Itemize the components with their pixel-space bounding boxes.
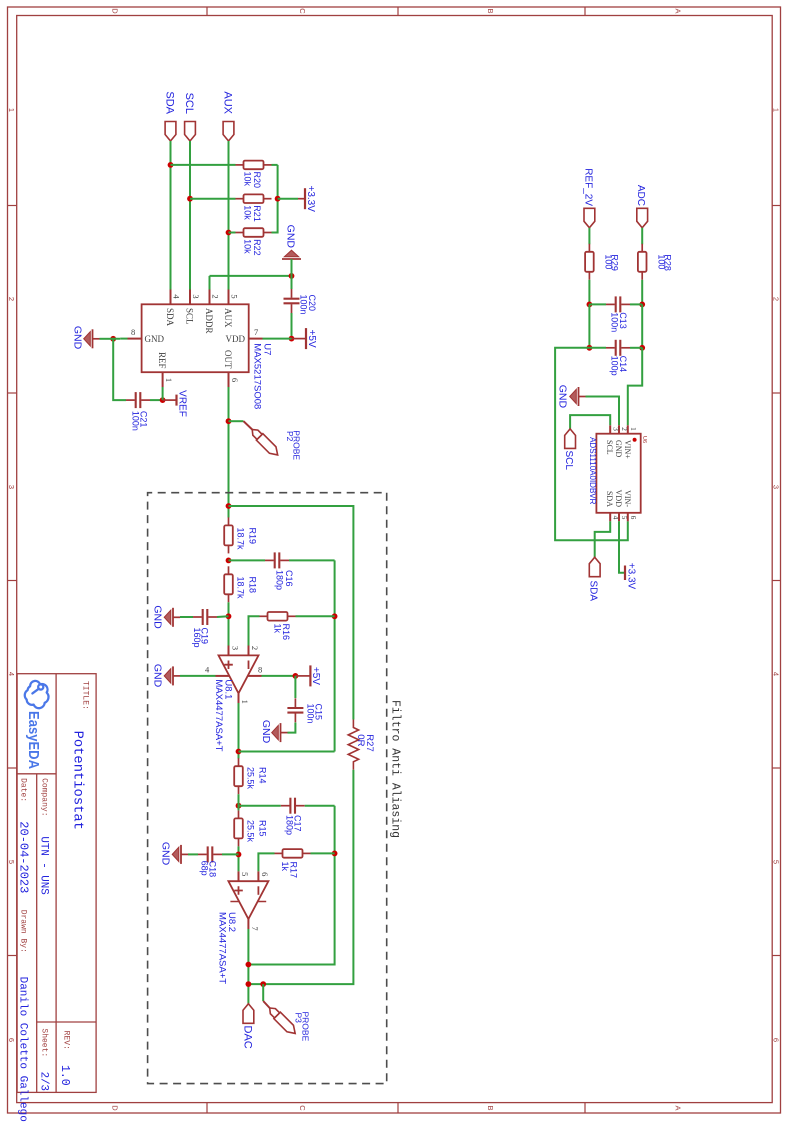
resistor R21: [264, 198, 272, 200]
EasyEDA logo: [25, 681, 49, 708]
wire feedback riser: [239, 751, 335, 753]
svg-text:SCL: SCL: [605, 440, 614, 455]
svg-text:1: 1: [772, 108, 781, 112]
pin stub U8.1 pin 4: [216, 675, 230, 677]
junction GND / pin8 / C21: [110, 336, 116, 342]
svg-text:SDA: SDA: [165, 308, 175, 327]
svg-text:R14: R14: [258, 767, 268, 784]
wire feedback to R16: [296, 615, 335, 617]
svg-text:100n: 100n: [299, 295, 309, 315]
junction P2 probe: [226, 418, 232, 424]
svg-text:1k: 1k: [280, 862, 290, 872]
pin stub U7 pin 8: [128, 338, 142, 340]
svg-text:4: 4: [772, 672, 781, 676]
svg-text:10k: 10k: [243, 205, 253, 220]
svg-text:D: D: [111, 8, 120, 14]
pin stub U8.1 pin 3: [228, 646, 230, 656]
svg-text:10k: 10k: [243, 172, 253, 187]
svg-text:UTN - UNS: UTN - UNS: [38, 836, 50, 894]
svg-text:6: 6: [260, 872, 270, 876]
svg-text:3: 3: [191, 294, 201, 298]
resistor R28: [641, 244, 643, 252]
svg-text:DAC: DAC: [242, 1026, 254, 1049]
junction node D: [236, 852, 242, 858]
junction ADDR / C20 / GND: [289, 273, 295, 279]
svg-text:AUX: AUX: [222, 91, 234, 114]
svg-text:Drawn By:: Drawn By:: [19, 910, 28, 953]
svg-text:GND: GND: [152, 605, 164, 629]
capacitor C18: [211, 846, 213, 862]
svg-text:2: 2: [772, 297, 781, 301]
wire SCL flag to U7 pin 3: [189, 141, 191, 290]
svg-text:4: 4: [7, 672, 16, 676]
svg-text:2: 2: [250, 646, 260, 650]
wire REF to VIN-: [555, 348, 628, 541]
svg-text:VREF: VREF: [177, 390, 188, 417]
svg-text:2: 2: [7, 297, 16, 301]
pin stub U7 pin 2: [209, 290, 211, 305]
capacitor C19: [206, 609, 208, 625]
pin stub U7 pin 1 REF: [162, 372, 164, 387]
svg-text:10k: 10k: [243, 239, 253, 254]
svg-text:VIN-: VIN-: [623, 490, 632, 507]
wire R17 to pin 6: [258, 853, 274, 871]
svg-text:SCL: SCL: [183, 93, 195, 114]
svg-text:2: 2: [620, 427, 629, 431]
wire R20 top: [272, 164, 278, 166]
svg-text:1: 1: [164, 378, 174, 382]
wire C13 upper lead: [630, 303, 642, 305]
wire feedback stage 1: [334, 560, 336, 751]
junction pullup rail / +3.3V: [275, 196, 281, 202]
wire node B to C19: [217, 615, 229, 618]
capacitor C16: [278, 552, 280, 568]
U6 pin 1 marker: [633, 438, 637, 442]
net flag SDA right: [589, 557, 600, 577]
wire pin 4 to gnd: [180, 675, 216, 677]
ground at C15: [272, 723, 288, 742]
resistor R15: [238, 810, 240, 818]
wire R27 branch left: [229, 506, 354, 720]
wire to P3 probe: [262, 984, 264, 1001]
wire junction to C15: [294, 676, 296, 698]
resistor R20: [264, 164, 272, 166]
title block grid: [17, 674, 96, 1093]
svg-text:C: C: [298, 1105, 307, 1111]
wire SDA to flag: [595, 521, 611, 557]
svg-text:+5V: +5V: [306, 330, 317, 348]
svg-text:+5V: +5V: [310, 667, 321, 685]
wire C13 to C14 top: [641, 304, 643, 347]
svg-text:GND: GND: [614, 440, 623, 458]
wire to +3.3V: [278, 198, 298, 200]
junction C14 top: [639, 345, 645, 351]
svg-text:OUT: OUT: [223, 350, 233, 369]
wire C19 to gnd: [180, 616, 193, 618]
ground at U7 pin 8: [84, 329, 100, 348]
power +5V at U8.1: [295, 675, 310, 677]
ground at C19: [164, 608, 180, 627]
pin stub U8.1 pin 2: [248, 646, 250, 656]
ground at C18: [172, 845, 188, 864]
svg-text:5: 5: [772, 860, 781, 864]
svg-text:Filtro Anti Aliasing: Filtro Anti Aliasing: [389, 700, 402, 838]
wire OUT main line: [228, 387, 230, 518]
svg-text:ADDR: ADDR: [204, 308, 214, 334]
wire gnd run to C21: [113, 339, 126, 400]
resistor R17: [303, 852, 311, 854]
pin stub ADS pin 1: [627, 425, 629, 433]
svg-text:GND: GND: [557, 385, 569, 409]
svg-text:SCL: SCL: [185, 308, 195, 325]
svg-text:25.5k: 25.5k: [246, 767, 256, 790]
svg-text:180p: 180p: [285, 815, 295, 835]
wire C17 to feedback 2: [305, 805, 335, 807]
capacitor C14: [619, 340, 621, 356]
svg-text:100n: 100n: [610, 312, 620, 332]
resistor R22: [264, 232, 272, 234]
pin stub U8.2 pin 5: [238, 871, 240, 881]
svg-text:3: 3: [611, 427, 620, 431]
capacitor C15: [287, 707, 303, 709]
pin stub U8.2 pin 7: [247, 919, 249, 929]
P3 probe lead: [263, 1001, 270, 1008]
wire AUX flag to U7 pin 5: [228, 141, 230, 290]
pin stub U7 pin 5: [228, 290, 230, 305]
svg-text:0R: 0R: [355, 734, 366, 746]
svg-text:TITLE:: TITLE:: [81, 681, 90, 710]
svg-text:5: 5: [620, 516, 629, 520]
junction C13 top: [639, 302, 645, 308]
svg-text:R15: R15: [258, 820, 268, 837]
svg-text:B: B: [486, 1105, 495, 1110]
wire C13 lower lead: [589, 303, 606, 305]
svg-text:ADS1110A0IDBVR: ADS1110A0IDBVR: [588, 437, 597, 505]
svg-text:REF_2V: REF_2V: [583, 168, 594, 206]
wire gnd to ADS pin 2: [586, 397, 620, 426]
wire C20 to +5V junction: [291, 313, 293, 339]
wire C16 to feedback: [289, 559, 335, 561]
wire to P2 probe: [229, 420, 244, 422]
wire R27 branch right: [248, 770, 353, 984]
svg-text:ADC: ADC: [635, 185, 646, 206]
svg-text:REV:: REV:: [62, 1031, 71, 1050]
svg-text:1: 1: [7, 108, 16, 112]
wire VDD to +3.3V: [619, 521, 625, 572]
svg-text:R22: R22: [252, 239, 262, 256]
svg-text:68p: 68p: [200, 861, 210, 876]
junction SCL / R21: [187, 196, 193, 202]
junction C13 bottom: [587, 302, 593, 308]
net flag SCL right: [565, 429, 576, 449]
svg-text:+3.3V: +3.3V: [305, 185, 316, 212]
net flag ADC: [637, 208, 648, 228]
junction REF / VREF / C21: [160, 397, 166, 403]
wire C16 to node A: [229, 559, 266, 561]
svg-text:7: 7: [250, 926, 260, 930]
svg-text:VIN+: VIN+: [623, 440, 632, 459]
pin stub U7 pin 6 OUT: [228, 372, 230, 387]
power +5V at U7: [292, 338, 307, 340]
net flag REF_2V: [584, 208, 595, 228]
svg-text:1.0: 1.0: [58, 1065, 71, 1086]
svg-text:MAX5217SO08: MAX5217SO08: [252, 343, 263, 409]
svg-text:Date:: Date:: [19, 778, 28, 802]
svg-text:SDA: SDA: [605, 491, 614, 507]
junction U8.1 output / feedback: [236, 749, 242, 755]
probe P3: [266, 1005, 298, 1037]
net flag SDA: [165, 122, 176, 142]
resistor R16: [288, 615, 296, 617]
junction R27 branch: [226, 503, 232, 509]
wire C15 to gnd: [288, 723, 296, 733]
wire R29 to C13: [588, 280, 590, 305]
svg-text:6: 6: [772, 1038, 781, 1042]
dashed box Filtro Anti Aliasing: [148, 493, 387, 1084]
U8.2 unconnected power stubs: [230, 901, 266, 903]
junction SDA / R20: [168, 162, 174, 168]
ADC IC U6 body: [596, 434, 640, 513]
svg-text:GND: GND: [145, 334, 165, 344]
wire C18 to gnd: [188, 853, 198, 855]
frame tick marks: [772, 205, 780, 207]
resistor R29: [588, 244, 590, 252]
pin stub ADS pin 3: [609, 425, 611, 433]
svg-text:2/3: 2/3: [38, 1072, 50, 1091]
capacitor C13: [619, 296, 621, 312]
svg-text:1: 1: [629, 427, 638, 431]
wire node D to pin 5: [238, 846, 240, 871]
junction P3 probe: [260, 981, 266, 987]
svg-text:Sheet:: Sheet:: [40, 1028, 49, 1057]
pin stub ADS pin 6: [627, 513, 629, 522]
power flag VREF: [163, 399, 177, 401]
wire R28 to C13: [641, 280, 643, 305]
wire U8.1 output: [238, 703, 240, 759]
svg-text:8: 8: [258, 664, 262, 674]
wire SDA flag to U7 pin 4: [170, 141, 172, 290]
svg-text:D: D: [111, 1105, 120, 1111]
svg-text:GND: GND: [72, 326, 84, 350]
svg-text:20-04-2023: 20-04-2023: [17, 821, 31, 893]
svg-text:R18: R18: [248, 577, 258, 594]
wire feedback 2 to R17: [311, 852, 335, 854]
wire GND to junction: [291, 259, 293, 276]
wire ADDR horizontal: [209, 276, 211, 290]
svg-text:Potentiostat: Potentiostat: [70, 731, 86, 830]
resistor R18: [228, 566, 230, 574]
junction output / R27 branch: [246, 981, 252, 987]
svg-text:U6: U6: [641, 436, 647, 443]
power +3.3V right: [624, 566, 626, 581]
svg-text:6: 6: [230, 378, 240, 382]
wire pullup rail: [272, 165, 278, 233]
P2 probe lead: [244, 421, 253, 429]
wire +5V junction to VDD pin: [263, 338, 292, 340]
svg-text:P2: P2: [285, 431, 295, 442]
svg-text:100p: 100p: [610, 356, 620, 376]
net flag AUX: [223, 122, 234, 142]
svg-text:5: 5: [240, 872, 250, 876]
wire pin 8 to +5V: [262, 675, 296, 677]
wire REF_2V flag: [588, 228, 590, 245]
junction R17 / feedback 2: [332, 851, 338, 857]
svg-text:6: 6: [629, 516, 638, 520]
svg-text:B: B: [486, 8, 495, 13]
svg-text:VDD: VDD: [614, 490, 623, 508]
svg-text:3: 3: [231, 646, 241, 650]
op-amp U8.1: [219, 655, 259, 693]
svg-text:1: 1: [240, 700, 250, 704]
svg-text:1k: 1k: [273, 624, 283, 634]
wire node C: [238, 794, 240, 810]
svg-text:3: 3: [772, 485, 781, 489]
svg-text:MAX4477ASA+T: MAX4477ASA+T: [217, 912, 228, 984]
svg-text:180p: 180p: [275, 570, 285, 590]
svg-text:EasyEDA: EasyEDA: [25, 711, 41, 769]
ground at U8.1 pin 4: [164, 666, 180, 685]
wire junction to C20: [291, 276, 293, 289]
svg-text:A: A: [674, 1105, 683, 1110]
pin stub U7 pin 4: [170, 290, 172, 305]
svg-text:25.5k: 25.5k: [246, 820, 256, 843]
resistor R14: [238, 758, 240, 766]
probe P2: [249, 426, 281, 458]
svg-text:VDD: VDD: [226, 334, 246, 344]
wire feedback stage 2: [248, 806, 334, 965]
pin stub ADS pin 2: [618, 425, 620, 433]
op-amp driver IC U7 body: [142, 304, 249, 372]
pin stub ADS pin 4: [609, 513, 611, 522]
resistor R27 zigzag: [348, 720, 358, 770]
svg-text:GND: GND: [160, 842, 172, 866]
net flag DAC: [243, 1004, 254, 1024]
svg-text:C: C: [298, 8, 307, 14]
svg-text:Danilo Coletto Gallego: Danilo Coletto Gallego: [17, 977, 29, 1122]
resistor R19: [228, 517, 230, 525]
junction C14 bottom: [587, 345, 593, 351]
svg-text:2: 2: [211, 294, 221, 298]
wire pin8 to junction: [120, 338, 127, 340]
op-amp U8.2: [228, 881, 268, 919]
capacitor C17: [294, 798, 296, 814]
pin stub U8.1 pin 1: [238, 693, 240, 703]
svg-text:A: A: [674, 8, 683, 13]
svg-text:6: 6: [7, 1038, 16, 1042]
wire REF to junction: [162, 387, 164, 400]
svg-text:R19: R19: [248, 528, 258, 545]
svg-text:SCL: SCL: [563, 451, 574, 471]
svg-text:8: 8: [131, 327, 135, 337]
junction node B: [226, 613, 232, 619]
wire C17 to node C: [239, 805, 281, 807]
wire junction to gnd: [100, 338, 114, 340]
svg-text:7: 7: [254, 327, 258, 337]
pin stub U7 pin 7: [249, 338, 263, 340]
wire ADC to VIN+: [628, 348, 642, 426]
ground at ADS1110: [570, 387, 586, 406]
wire R21 to SCL: [190, 198, 236, 200]
svg-text:100n: 100n: [131, 411, 141, 431]
wire C13 to C14 bottom: [588, 304, 590, 347]
pin stub U8.1 pin 8: [248, 675, 262, 677]
wire U8.2 output: [247, 929, 249, 1004]
junction output / feedback 2: [246, 962, 252, 968]
svg-text:P3: P3: [294, 1013, 304, 1024]
svg-text:+3.3V: +3.3V: [626, 563, 637, 590]
svg-text:REF: REF: [157, 352, 167, 369]
capacitor C21: [139, 392, 141, 408]
wire C14 upper lead: [630, 347, 642, 349]
svg-text:100n: 100n: [306, 704, 316, 724]
junction C20 / +5V / VDD: [289, 336, 295, 342]
junction node C: [236, 803, 242, 809]
svg-text:R21: R21: [252, 205, 262, 222]
svg-text:GND: GND: [152, 664, 164, 688]
wire SCL to flag: [570, 415, 610, 429]
junction +5V / C15 / pin 8: [293, 673, 299, 679]
svg-text:18.7k: 18.7k: [236, 528, 246, 551]
svg-text:Company:: Company:: [40, 778, 49, 816]
svg-text:18.7k: 18.7k: [236, 577, 246, 600]
wire ADDR to GND rail: [210, 275, 292, 277]
svg-text:3: 3: [7, 485, 16, 489]
svg-text:MAX4477ASA+T: MAX4477ASA+T: [213, 679, 224, 751]
svg-text:5: 5: [230, 294, 240, 298]
wire R20 to SDA: [171, 164, 236, 166]
svg-text:GND: GND: [260, 720, 272, 744]
pin stub U8.2 pin 6: [257, 871, 259, 881]
wire C21 top: [150, 399, 163, 401]
svg-text:5: 5: [7, 860, 16, 864]
svg-text:GND: GND: [285, 225, 297, 249]
wire node D to C18: [222, 853, 239, 855]
svg-text:C16: C16: [284, 570, 294, 587]
wire ADC flag: [641, 228, 643, 245]
svg-text:SDA: SDA: [164, 91, 176, 114]
capacitor C20: [284, 298, 300, 300]
wire spacer: [238, 758, 240, 760]
pin stub U7 pin 3: [189, 290, 191, 305]
svg-text:AUX: AUX: [223, 308, 233, 328]
wire R22 to AUX: [229, 232, 236, 234]
net flag SCL: [185, 122, 196, 142]
power +3.3V: [298, 198, 305, 200]
svg-text:100: 100: [604, 254, 614, 269]
svg-text:100: 100: [657, 254, 667, 269]
ground near C20: [282, 250, 301, 266]
wire node B to pin 3: [228, 602, 230, 645]
junction node A: [226, 558, 232, 564]
junction R16 / feedback: [332, 613, 338, 619]
svg-text:SDA: SDA: [588, 581, 599, 602]
svg-text:160p: 160p: [192, 628, 202, 648]
junction AUX / R22: [226, 230, 232, 236]
wire C14 lower lead: [589, 347, 606, 349]
svg-text:R20: R20: [252, 172, 262, 189]
pin stub ADS pin 5: [618, 513, 620, 522]
wire R16 to pin 2: [249, 616, 260, 645]
